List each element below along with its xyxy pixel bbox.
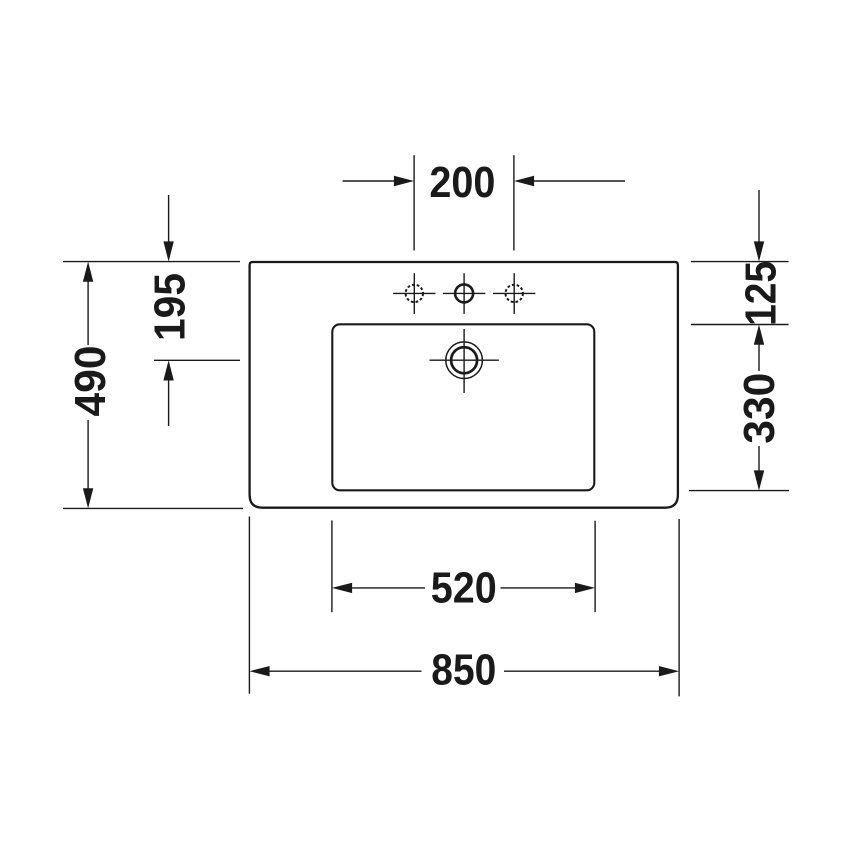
dimension 125 (right, rim to bowl top) [691,190,789,325]
dimension 850 (bottom, overall width) [249,517,679,697]
svg-text:490: 490 [66,346,115,417]
label 125 [737,261,786,326]
dimension 200 (top, faucet spacing) [343,155,625,250]
faucet hole right (dashed) [493,273,535,314]
svg-text:520: 520 [431,564,497,613]
drain hole [430,329,499,393]
svg-text:200: 200 [429,158,495,207]
basin inner bowl [332,324,594,490]
svg-text:850: 850 [431,645,496,694]
svg-text:125: 125 [737,261,786,326]
basin outer outline [250,262,678,508]
dimension 330 (right, bowl depth) [689,344,789,491]
dimension 490 (left, overall height) [63,262,243,509]
label 490 [66,346,115,417]
dimension 195 (left, drain depth) [154,195,240,426]
svg-text:195: 195 [145,273,194,341]
svg-text:330: 330 [735,373,784,444]
label 330 [735,373,784,444]
label 195 [145,273,194,341]
faucet hole left (dashed) [393,273,435,314]
dimension 520 (bottom, bowl width) [332,520,595,612]
faucet hole center (solid) [443,273,485,314]
